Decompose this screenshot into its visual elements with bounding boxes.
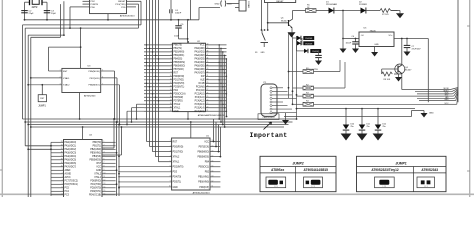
resistor R8 10K <box>382 69 402 82</box>
svg-text:PA2(ADC2): PA2(ADC2) <box>65 148 77 151</box>
svg-text:PA7(ADC7): PA7(ADC7) <box>65 166 77 169</box>
wire rail y116.5 GND net <box>226 111 424 118</box>
svg-text:15: 15 <box>170 92 172 94</box>
svg-text:PB5(MOSI): PB5(MOSI) <box>89 160 101 162</box>
svg-text:1 2 3: 1 2 3 <box>274 186 278 188</box>
svg-text:PC6(TOSC1): PC6(TOSC1) <box>65 184 79 186</box>
svg-text:PB1(T1): PB1(T1) <box>174 48 183 50</box>
wire U2 right bus 3 <box>222 52 224 125</box>
wire center bus line 1 <box>147 0 172 142</box>
svg-text:C5: C5 <box>181 24 185 26</box>
svg-text:3: 3 <box>170 150 171 152</box>
ground at P1 <box>282 113 289 125</box>
transistor Q1 BC547 <box>267 18 293 28</box>
svg-text:PD4(T0): PD4(T0) <box>173 177 182 179</box>
svg-text:CENTRONICS: CENTRONICS <box>263 117 276 119</box>
svg-text:38: 38 <box>61 159 63 161</box>
svg-text:11: 11 <box>170 79 172 81</box>
svg-text:6: 6 <box>104 159 105 161</box>
svg-text:13: 13 <box>212 176 214 178</box>
junction dots on top rail <box>107 19 189 21</box>
svg-text:39: 39 <box>207 47 209 49</box>
svg-text:PD1(TXD): PD1(TXD) <box>115 4 125 6</box>
svg-text:PD1(TXD): PD1(TXD) <box>91 184 102 186</box>
wire top feed x190 <box>190 0 192 20</box>
svg-text:16: 16 <box>170 96 172 98</box>
wire long rail y122 <box>24 121 292 123</box>
capacitor C6 100nF <box>346 36 360 53</box>
svg-text:C6: C6 <box>351 36 354 38</box>
svg-text:40: 40 <box>207 44 209 46</box>
svg-text:25: 25 <box>207 96 209 98</box>
wire center bus line 5 <box>159 0 172 162</box>
wire left pin3 drop <box>69 7 82 29</box>
svg-text:VCC: VCC <box>204 141 209 143</box>
svg-text:PD0(RXD): PD0(RXD) <box>90 181 101 183</box>
svg-text:PC4(A12): PC4(A12) <box>195 100 205 103</box>
svg-text:1 2 3: 1 2 3 <box>311 186 315 188</box>
svg-text:GND: GND <box>96 170 101 172</box>
svg-text:PA3(AD3): PA3(AD3) <box>195 58 205 61</box>
svg-text:JUMP1: JUMP1 <box>38 106 46 108</box>
svg-text:33: 33 <box>207 68 209 70</box>
svg-text:PB4(SS): PB4(SS) <box>92 156 101 158</box>
wire loop rail y37 <box>31 4 61 197</box>
svg-text:PD2(INT0): PD2(INT0) <box>90 188 101 190</box>
wire U2 lower-left pins drop <box>126 104 144 125</box>
svg-text:VO+: VO+ <box>388 35 393 37</box>
svg-text:100nF: 100nF <box>346 43 352 45</box>
diode D4 1N4148 <box>297 41 314 45</box>
IC U1 AT90S2313 20-pin socket <box>169 122 221 194</box>
svg-text:PD6(WR): PD6(WR) <box>174 97 184 99</box>
svg-text:10uF: 10uF <box>174 35 180 37</box>
ground after R7 <box>391 11 404 19</box>
table JUMP2 <box>260 156 336 191</box>
svg-text:PB0(T0): PB0(T0) <box>174 45 183 47</box>
crystal X1 <box>25 0 48 9</box>
svg-text:4MHz: 4MHz <box>32 7 39 9</box>
diode D3 1N4148 <box>293 36 315 40</box>
svg-text:PC3: PC3 <box>65 195 70 197</box>
svg-text:BC547: BC547 <box>281 20 288 22</box>
wire U1 lower left pin feeds <box>118 166 171 188</box>
svg-text:33: 33 <box>61 141 63 143</box>
wire U3 right pins drop <box>114 71 121 125</box>
IC U4 ATmega8535 40-pin socket (cropped) <box>51 127 116 200</box>
svg-text:39: 39 <box>61 162 63 164</box>
svg-text:PC4: PC4 <box>65 191 70 193</box>
connector clip symbol <box>221 1 239 7</box>
svg-text:GND: GND <box>444 99 449 101</box>
LED D11 indicator <box>357 108 370 141</box>
svg-text:PA1(ADC1): PA1(ADC1) <box>65 145 77 148</box>
svg-text:AVCC: AVCC <box>65 176 71 179</box>
svg-text:AT90S2323/Tiny12: AT90S2323/Tiny12 <box>371 168 399 172</box>
svg-text:XTAL1: XTAL1 <box>63 77 70 80</box>
svg-text:5: 5 <box>62 183 63 185</box>
svg-text:OC1B: OC1B <box>198 83 205 85</box>
svg-text:Important: Important <box>250 132 288 139</box>
svg-text:PA7(AD7): PA7(AD7) <box>195 72 205 75</box>
svg-text:PB0(AIN0): PB0(AIN0) <box>198 181 209 184</box>
svg-text:PD2(INT0): PD2(INT0) <box>173 167 184 169</box>
svg-text:JUMP2: JUMP2 <box>292 161 303 165</box>
svg-text:PC6(A14): PC6(A14) <box>195 107 205 110</box>
connector CONN1 power jack <box>235 0 249 11</box>
jumper JUMP1 <box>38 84 46 108</box>
svg-text:RESET: RESET <box>276 1 284 3</box>
transistor Q4 BC547 <box>395 38 412 90</box>
svg-text:PA6(ADC6): PA6(ADC6) <box>65 162 77 165</box>
svg-text:PB2(AIN0): PB2(AIN0) <box>90 148 101 151</box>
svg-text:PC5: PC5 <box>65 188 70 190</box>
svg-text:VCC: VCC <box>96 167 101 169</box>
svg-text:19: 19 <box>170 106 172 108</box>
svg-text:5: 5 <box>102 70 103 72</box>
svg-text:13: 13 <box>170 85 172 87</box>
svg-text:38: 38 <box>207 51 209 53</box>
svg-text:6: 6 <box>171 61 172 63</box>
svg-text:5: 5 <box>170 160 171 162</box>
svg-text:47uF/25V: 47uF/25V <box>412 48 422 50</box>
wire U2 right bus 5 <box>226 59 228 117</box>
svg-text:34: 34 <box>61 145 63 147</box>
svg-text:U3: U3 <box>88 65 92 67</box>
wire U4 right pins bends <box>116 152 120 189</box>
LED D1 PROGRAM <box>326 2 361 14</box>
svg-text:RST: RST <box>63 71 68 73</box>
capacitor C5b 47uF <box>306 51 322 71</box>
svg-text:1N4148: 1N4148 <box>305 38 313 40</box>
svg-text:PD7(RD): PD7(RD) <box>174 101 183 103</box>
svg-text:11: 11 <box>212 186 214 188</box>
svg-text:PD5: PD5 <box>121 7 126 9</box>
svg-text:5: 5 <box>104 155 105 157</box>
svg-text:AT90S2343: AT90S2343 <box>84 94 96 97</box>
wire left bus bends into U4 <box>25 145 52 150</box>
svg-text:PA3(ADC3): PA3(ADC3) <box>65 152 77 155</box>
svg-text:19: 19 <box>212 145 214 147</box>
junction dots U2 left pins on bus <box>146 44 160 101</box>
svg-text:GND: GND <box>173 187 178 189</box>
svg-text:PD1(TXD): PD1(TXD) <box>173 151 184 153</box>
svg-text:AREF: AREF <box>65 169 72 172</box>
frame left border <box>0 0 2 197</box>
svg-text:12: 12 <box>170 82 172 84</box>
svg-text:RST: RST <box>40 98 45 100</box>
LED D2 POWER <box>359 2 380 14</box>
svg-text:POWER: POWER <box>359 4 367 6</box>
IC U3 AT90S2343 8-pin socket <box>28 65 119 97</box>
wire long rail y124.5 <box>27 124 288 126</box>
svg-text:R8 10K: R8 10K <box>384 79 391 81</box>
svg-text:PB4: PB4 <box>205 162 210 164</box>
svg-text:PD3(INT1): PD3(INT1) <box>174 87 185 89</box>
svg-text:35: 35 <box>61 148 63 150</box>
wire U2 right bus 1 <box>218 45 220 119</box>
wire switch feeders <box>261 0 269 31</box>
capacitor C2 22pF <box>21 10 34 14</box>
svg-text:U2: U2 <box>197 41 201 43</box>
svg-text:28: 28 <box>207 85 209 87</box>
svg-text:AT90S4414/8515: AT90S4414/8515 <box>304 168 329 172</box>
svg-text:ALE: ALE <box>200 79 205 82</box>
svg-text:XTAL1: XTAL1 <box>174 107 181 110</box>
svg-text:17: 17 <box>170 99 172 101</box>
svg-text:1: 1 <box>170 140 171 142</box>
svg-text:2: 2 <box>104 145 105 147</box>
capacitor C4 100nF <box>170 0 182 20</box>
node GND labels at connector <box>215 4 233 6</box>
svg-text:PB2(AIN0): PB2(AIN0) <box>174 51 185 54</box>
svg-text:AGND: AGND <box>65 173 72 176</box>
svg-text:PD4: PD4 <box>174 90 179 92</box>
svg-text:PD0(RXD): PD0(RXD) <box>174 76 185 78</box>
svg-text:22pF: 22pF <box>29 13 35 15</box>
svg-text:GND: GND <box>261 52 266 54</box>
svg-text:5: 5 <box>171 58 172 60</box>
svg-text:AT90S2343: AT90S2343 <box>421 168 438 172</box>
resistor R4 <box>293 101 445 107</box>
svg-text:36: 36 <box>207 58 209 60</box>
svg-text:16: 16 <box>212 160 214 162</box>
svg-text:PB3(OC1): PB3(OC1) <box>199 167 210 169</box>
svg-text:7: 7 <box>171 65 172 67</box>
svg-text:PB6(MISO): PB6(MISO) <box>89 85 100 87</box>
svg-text:4: 4 <box>62 180 63 182</box>
svg-text:2: 2 <box>171 47 172 49</box>
svg-text:22pF: 22pF <box>51 13 57 15</box>
svg-text:PB1(T1): PB1(T1) <box>93 146 102 148</box>
ground regulator <box>371 47 378 57</box>
connector P1 Centronics <box>258 82 297 119</box>
resistor R1 <box>289 60 341 73</box>
frame bottom border <box>0 193 474 195</box>
wire rail28 drop to U3 top <box>80 27 82 68</box>
svg-text:1N4148: 1N4148 <box>305 43 313 45</box>
svg-text:PB7(SCK): PB7(SCK) <box>174 69 185 71</box>
wire U3 reset loop <box>49 47 81 71</box>
svg-text:23: 23 <box>207 103 209 105</box>
wire U1 right bend lines <box>213 119 222 158</box>
wire crystal left leg <box>24 2 26 20</box>
svg-text:2: 2 <box>62 173 63 175</box>
svg-text:PD2: PD2 <box>91 1 96 3</box>
wire loop rail y25 <box>23 1 142 119</box>
svg-text:ICP: ICP <box>201 76 205 78</box>
svg-text:XTAL2: XTAL2 <box>174 103 181 106</box>
svg-text:U1: U1 <box>206 136 210 138</box>
svg-text:16: 16 <box>104 194 106 196</box>
svg-text:27: 27 <box>207 89 209 91</box>
wire loop rail y28 <box>25 4 138 146</box>
svg-text:RST: RST <box>97 163 102 165</box>
svg-text:AT90S/LE2313: AT90S/LE2313 <box>120 15 135 18</box>
svg-text:PA5(AD5): PA5(AD5) <box>195 65 205 68</box>
svg-text:PC0(A8): PC0(A8) <box>196 86 205 89</box>
svg-text:PD2(INT0): PD2(INT0) <box>174 83 185 85</box>
resistor R3 <box>297 93 445 99</box>
svg-text:3: 3 <box>60 84 61 86</box>
svg-text:U5: U5 <box>364 28 368 30</box>
svg-text:PD6(ICP): PD6(ICP) <box>199 187 209 189</box>
svg-text:1N4148: 1N4148 <box>312 51 320 53</box>
wire crystal right leg <box>46 2 48 20</box>
wire center bus line 2 <box>150 0 172 147</box>
svg-text:3: 3 <box>62 176 63 178</box>
svg-text:1: 1 <box>62 169 63 171</box>
svg-text:XTAL2: XTAL2 <box>173 155 180 158</box>
LED D12 indicator <box>373 108 386 141</box>
svg-text:PB3(AIN1): PB3(AIN1) <box>174 54 185 57</box>
resistor R5 1K <box>306 4 329 12</box>
svg-text:CONN1: CONN1 <box>247 1 249 9</box>
svg-text:1 2 3: 1 2 3 <box>424 186 428 188</box>
svg-text:PC3(A11): PC3(A11) <box>195 96 205 99</box>
svg-text:PORTB: PORTB <box>91 4 99 6</box>
wire fan lines with net labels <box>402 88 458 105</box>
wire main vertical x458 <box>457 0 459 102</box>
wire long rail y119 <box>23 118 297 120</box>
svg-text:RST: RST <box>174 73 179 75</box>
IC U6 (top, cropped 20-pin socket) <box>83 0 142 20</box>
svg-text:4: 4 <box>170 155 171 157</box>
svg-text:11: 11 <box>104 176 106 178</box>
svg-text:8: 8 <box>62 194 63 196</box>
wire P1 bus verticals <box>288 33 298 120</box>
svg-text:PD3(INT1): PD3(INT1) <box>90 191 101 193</box>
svg-text:30: 30 <box>207 79 209 81</box>
svg-text:7: 7 <box>104 162 105 164</box>
svg-text:XTAL1: XTAL1 <box>173 161 180 164</box>
svg-text:PA4(AD4): PA4(AD4) <box>195 61 205 64</box>
svg-text:VCC: VCC <box>445 103 450 105</box>
svg-text:37: 37 <box>61 155 63 157</box>
svg-text:1: 1 <box>60 70 61 72</box>
svg-text:PC1(A9): PC1(A9) <box>196 89 205 92</box>
svg-text:PD5(OC1A): PD5(OC1A) <box>174 93 186 96</box>
wire program rail <box>293 11 306 20</box>
wire Vout rail <box>394 38 428 103</box>
svg-text:26: 26 <box>207 92 209 94</box>
wire GND rail top <box>25 19 200 21</box>
ground GND stub right <box>421 111 435 118</box>
svg-text:8: 8 <box>171 68 172 70</box>
svg-text:15: 15 <box>212 165 214 167</box>
svg-text:PC7(TOSC2): PC7(TOSC2) <box>65 181 79 183</box>
wire drop bundle x119 <box>118 124 120 196</box>
svg-text:10: 10 <box>104 173 106 175</box>
svg-text:2: 2 <box>60 77 61 79</box>
svg-text:6: 6 <box>102 77 103 79</box>
svg-text:PB6(MISO): PB6(MISO) <box>174 66 186 68</box>
svg-text:1: 1 <box>171 44 172 46</box>
svg-text:14: 14 <box>170 89 172 91</box>
svg-text:XTAL2: XTAL2 <box>94 173 101 176</box>
svg-text:9: 9 <box>104 169 105 171</box>
svg-text:35: 35 <box>207 61 209 63</box>
wire center bus line 3 <box>153 0 172 152</box>
svg-text:24: 24 <box>207 99 209 101</box>
resistor R2 <box>293 62 346 90</box>
svg-text:21: 21 <box>207 110 209 112</box>
svg-text:PD6: PD6 <box>91 7 96 9</box>
svg-text:PB0(T0): PB0(T0) <box>93 142 102 144</box>
resistor R7 zigzag <box>380 9 398 16</box>
svg-text:VCC: VCC <box>200 45 205 47</box>
svg-text:XTAL2: XTAL2 <box>63 84 70 87</box>
svg-text:PB5(MOSI): PB5(MOSI) <box>89 71 100 73</box>
svg-text:PA4(ADC4): PA4(ADC4) <box>65 155 77 158</box>
svg-text:PC2(A10): PC2(A10) <box>195 93 205 96</box>
op IC U2 ATmega/AT90S8515 40-pin <box>144 41 227 117</box>
wire U2 right bus 2 <box>220 48 222 122</box>
ground Vin drop <box>340 39 347 54</box>
svg-text:22: 22 <box>207 106 209 108</box>
svg-text:AT90S1200/2313: AT90S1200/2313 <box>193 191 211 194</box>
svg-text:PA1(AD1): PA1(AD1) <box>195 51 205 54</box>
svg-text:PB2: PB2 <box>205 172 210 174</box>
svg-text:PD5(T1): PD5(T1) <box>173 182 182 184</box>
frame right border <box>467 0 470 197</box>
svg-text:18: 18 <box>170 103 172 105</box>
svg-text:JUMP1: JUMP1 <box>395 161 406 165</box>
svg-text:20: 20 <box>170 110 172 112</box>
svg-text:PD0(RXD): PD0(RXD) <box>173 146 184 148</box>
svg-text:31: 31 <box>207 75 209 77</box>
wire U2 right bus 4 <box>224 55 226 127</box>
svg-text:37: 37 <box>207 54 209 56</box>
svg-text:PA6(AD6): PA6(AD6) <box>195 68 205 71</box>
svg-text:GND: GND <box>429 112 434 114</box>
svg-text:36: 36 <box>61 152 63 154</box>
svg-text:PB6(MISO): PB6(MISO) <box>197 151 209 153</box>
svg-text:RESET: RESET <box>118 1 126 3</box>
wire drop bundle x116.5 <box>116 121 118 196</box>
svg-text:PD1(TXD): PD1(TXD) <box>174 80 185 82</box>
svg-text:34: 34 <box>207 65 209 67</box>
LED D10 indicator <box>341 108 354 141</box>
regulator U5 78L05 <box>359 28 394 47</box>
svg-text:4: 4 <box>171 54 172 56</box>
svg-text:PD4(OC1B): PD4(OC1B) <box>89 195 101 197</box>
svg-text:3: 3 <box>104 148 105 150</box>
svg-text:8: 8 <box>104 166 105 168</box>
wire VCC to U2 top <box>187 20 189 43</box>
label Important with arrow <box>250 122 288 139</box>
svg-text:29: 29 <box>207 82 209 84</box>
svg-text:18: 18 <box>212 150 214 152</box>
wire drop bundle x114 <box>102 118 115 148</box>
svg-text:32: 32 <box>207 72 209 74</box>
svg-text:15: 15 <box>104 190 106 192</box>
svg-text:25n: 25n <box>351 126 354 128</box>
svg-text:1 2 3: 1 2 3 <box>383 186 387 188</box>
junction dots left loops <box>24 19 65 36</box>
svg-text:PB5(MOSI): PB5(MOSI) <box>174 62 186 64</box>
diode D5 1N4148 <box>304 49 321 53</box>
svg-text:7: 7 <box>62 190 63 192</box>
wire rail y108.6 LED feed <box>297 108 416 110</box>
svg-text:PB4(SS): PB4(SS) <box>174 59 183 61</box>
wire Vin drop <box>342 10 359 40</box>
svg-text:RST: RST <box>173 141 178 143</box>
wire center bus line 4 <box>156 0 172 157</box>
svg-text:PB3(AIN1): PB3(AIN1) <box>90 152 101 155</box>
svg-text:PROGRAM: PROGRAM <box>326 3 337 6</box>
svg-text:Q1: Q1 <box>281 18 285 20</box>
